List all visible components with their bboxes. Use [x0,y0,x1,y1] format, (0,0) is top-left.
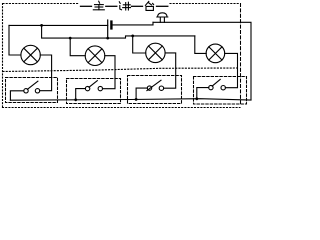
classroom dotted border left edge [2,4,4,108]
wire bell to right edge and down [153,22,251,100]
wire lamp L4 feed [195,36,206,54]
title dash 4 [157,5,168,7]
lamp L4 [206,44,225,63]
title dash 3 [132,5,143,7]
wire left drop to lamp L1 [9,25,21,55]
title dash 1 [81,5,92,7]
switch S2 [85,86,89,90]
node junction battery plate on bus [106,37,109,40]
wire battery to bell [112,22,153,25]
lamp L2 [85,46,105,66]
wire top-left bus [9,24,108,26]
battery short plate [110,22,112,29]
lamp L1 [21,45,40,64]
wire bottom return bus [10,99,251,101]
wire lamp L4 output [225,53,238,87]
switch box 4 dashed [194,77,247,105]
dotted divider between lamp area and switch boxes [3,68,237,72]
switch S1 [24,89,28,93]
title character 台 [145,1,153,10]
classroom dotted border bottom edge [3,107,241,109]
wire switch S4 to bottom bus [197,88,209,99]
node junction lamp L2 feed [69,37,72,40]
node junction S3 on bus [135,98,138,101]
switch box 3 dashed [128,76,182,104]
switch box 1 dashed [6,78,58,103]
node junction S4 on bus [195,97,198,100]
switch S3 [147,86,151,90]
title character 讲 [119,2,130,10]
node junction lamp L3 feed [131,35,134,38]
wire lamp L3 output [164,53,176,88]
wire lamp L2 output [103,56,116,89]
wire second bus with jog [42,25,195,38]
bell dome [157,13,168,17]
classroom dotted border top-right segment [170,3,240,5]
lamp L3 [146,43,165,62]
wire lamp L1 output [40,55,52,91]
title dash 2 [106,5,117,7]
bell legs [160,17,164,22]
wire switch S3 to bottom bus [136,88,147,99]
wire lamp L3 feed [133,36,146,53]
wire lamp L2 feed [70,38,85,56]
wire switch S1 to bottom bus [10,91,23,100]
wire switch S2 to bottom bus [76,89,86,100]
title character 主 [93,1,104,10]
classroom dotted border top-left segment [3,3,79,5]
node junction on top bus [40,24,43,27]
classroom dashed border right edge [240,4,242,104]
battery long plate [107,20,109,38]
node junction S2 on bus [74,98,77,101]
switch S4 [209,85,213,89]
switch box 2 dashed [67,79,121,104]
